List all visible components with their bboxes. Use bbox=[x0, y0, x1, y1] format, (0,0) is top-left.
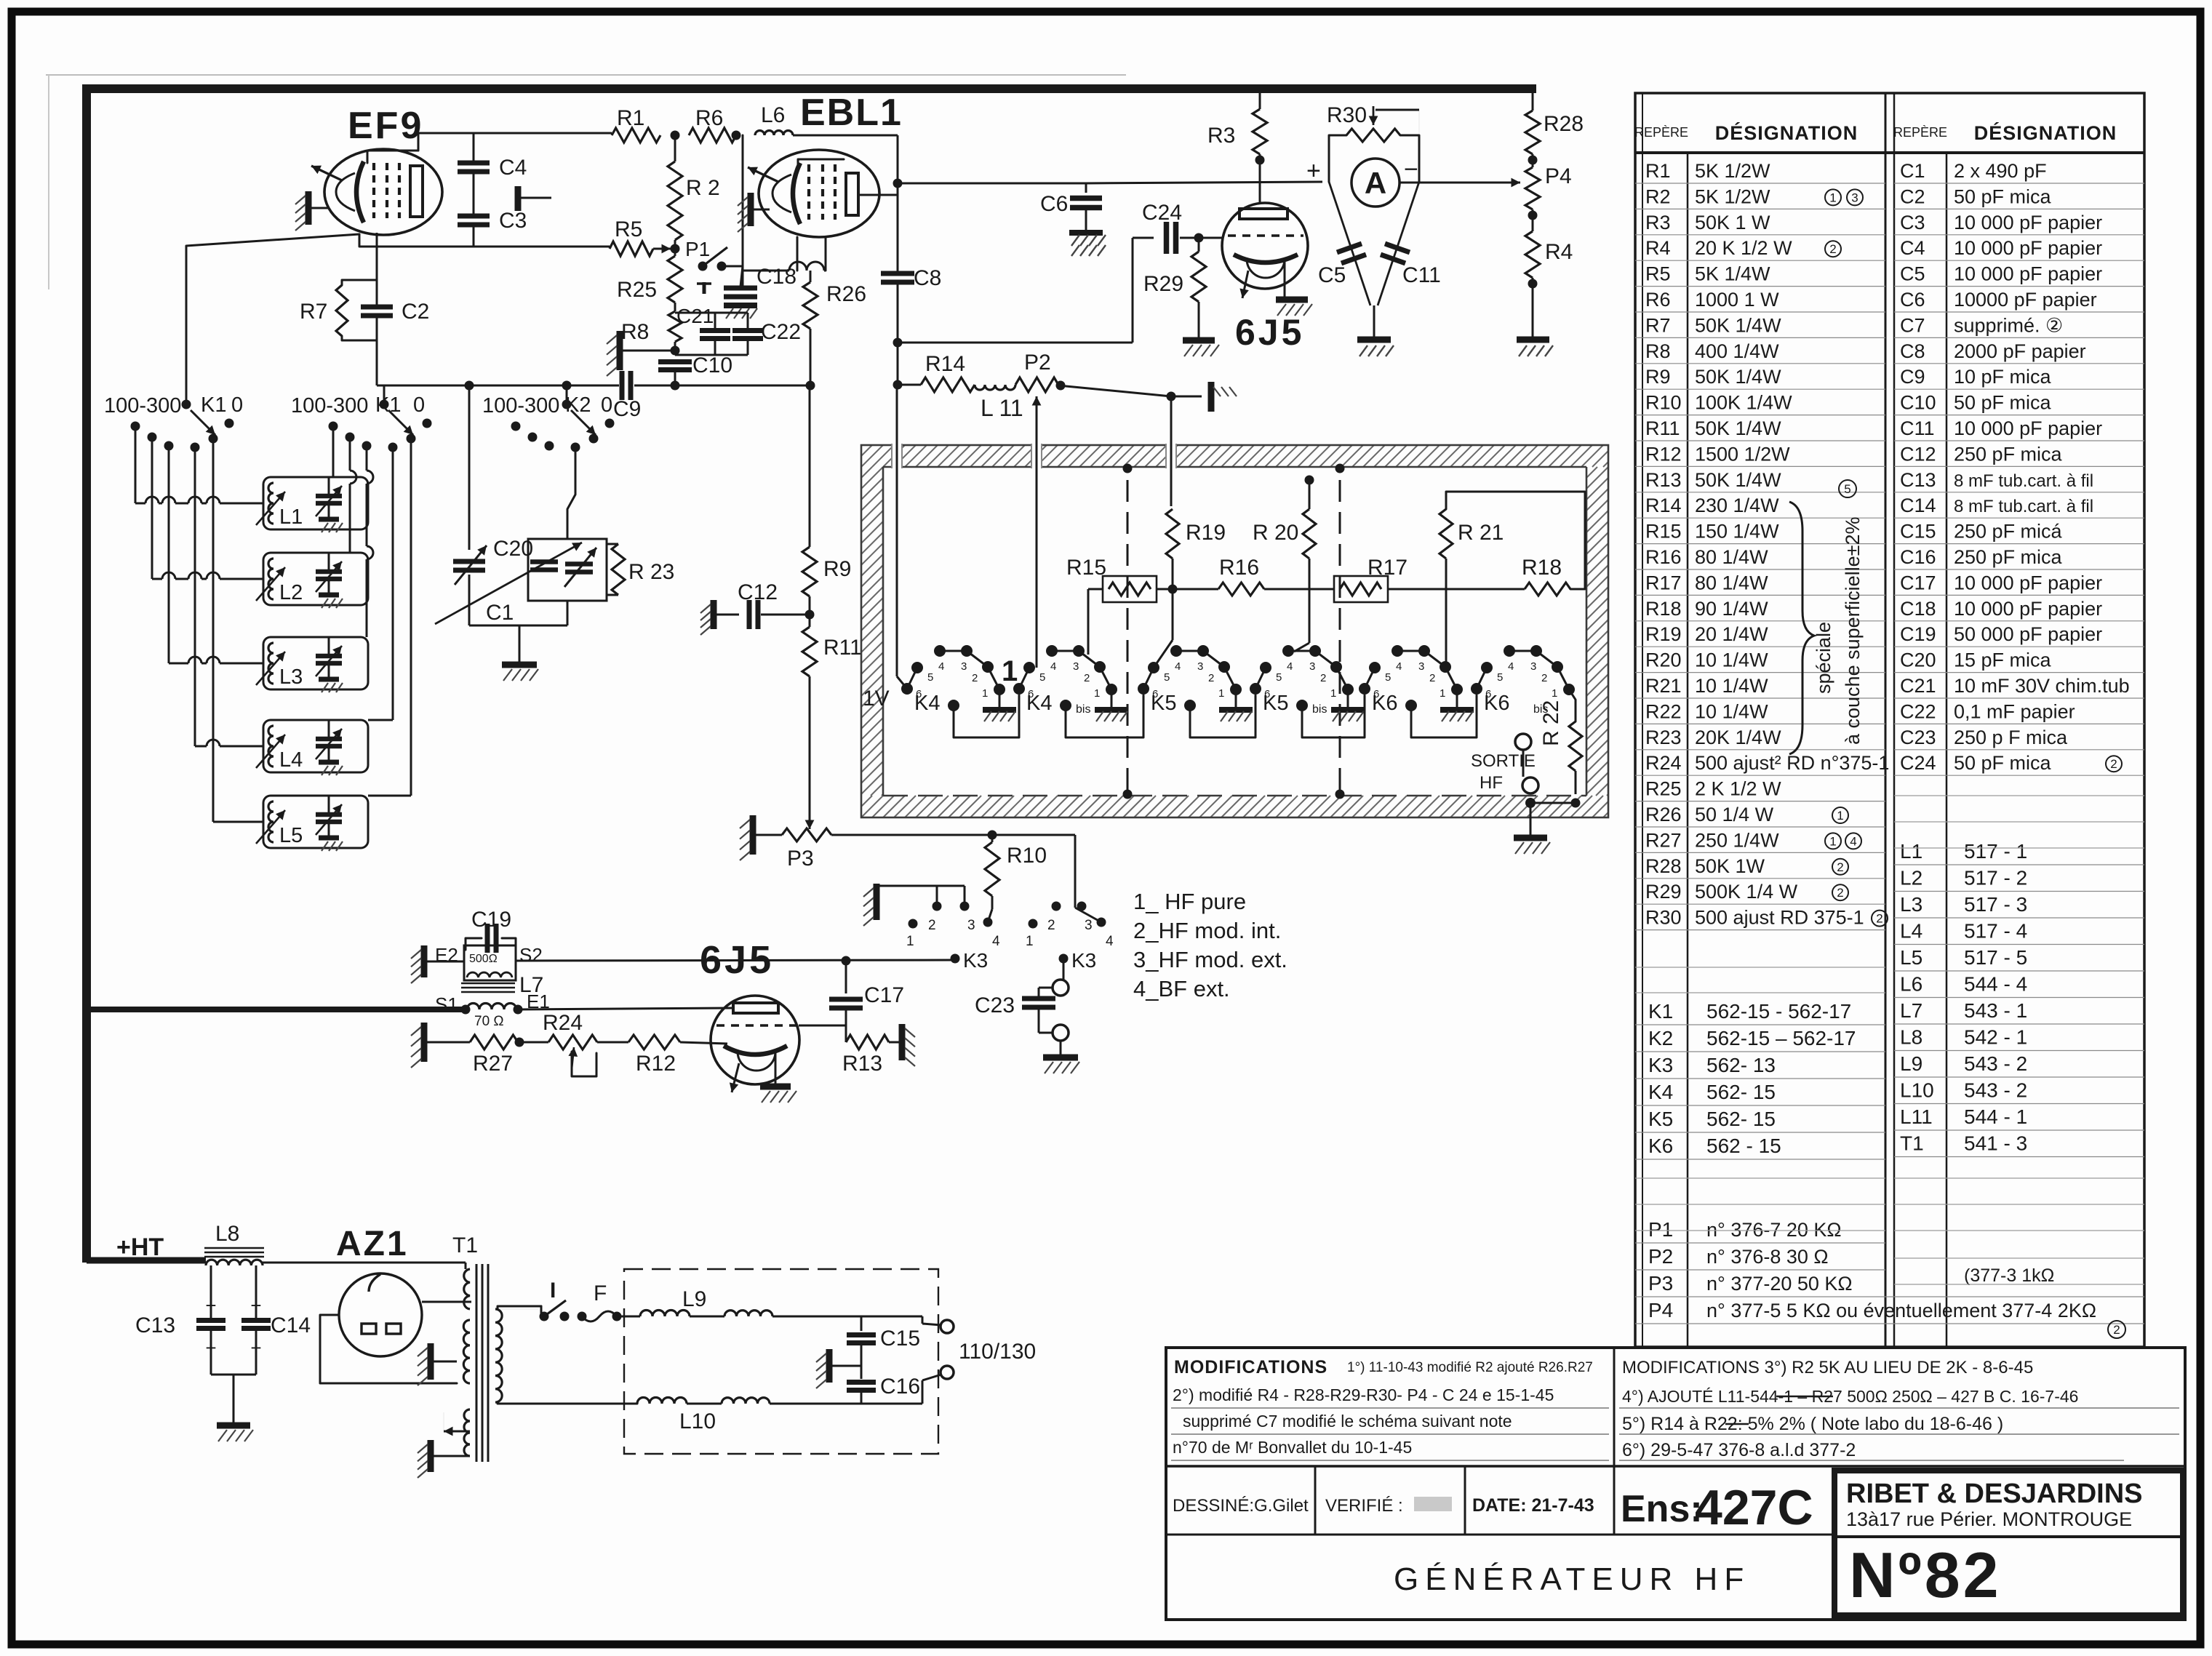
svg-text:C22: C22 bbox=[1900, 700, 1936, 722]
tube 6J5 lower cathode arrow bbox=[732, 1063, 739, 1092]
svg-text:542 - 1: 542 - 1 bbox=[1964, 1026, 2027, 1049]
switch K5 bbox=[1138, 683, 1149, 695]
svg-text:1: 1 bbox=[1552, 687, 1557, 700]
attenuator shield hatch right bbox=[1586, 467, 1597, 478]
wire y471 rail bbox=[898, 342, 1133, 344]
svg-text:50K 1/4W: 50K 1/4W bbox=[1695, 417, 1781, 439]
svg-text:R10: R10 bbox=[1645, 392, 1682, 414]
svg-text:1000 1 W: 1000 1 W bbox=[1695, 289, 1779, 311]
svg-text:R5: R5 bbox=[1645, 263, 1671, 285]
svg-text:R19: R19 bbox=[1645, 623, 1682, 645]
terminal wall T1 bbox=[428, 1343, 434, 1380]
svg-text:500 ajust RD 375-1: 500 ajust RD 375-1 bbox=[1695, 907, 1864, 929]
tube AZ1 anodes bbox=[362, 1324, 376, 1334]
svg-text:R10: R10 bbox=[1007, 844, 1047, 868]
wire R18 right riser bbox=[1528, 492, 1585, 589]
svg-text:2: 2 bbox=[1084, 672, 1090, 684]
svg-text:K6: K6 bbox=[1372, 692, 1397, 715]
svg-text:L8: L8 bbox=[1900, 1026, 1922, 1049]
svg-text:bis: bis bbox=[1312, 703, 1327, 716]
svg-text:R 21: R 21 bbox=[1458, 521, 1504, 545]
tube 6J5 lower plate bbox=[733, 1003, 778, 1013]
svg-text:DÉSIGNATION: DÉSIGNATION bbox=[1715, 121, 1858, 144]
svg-text:R16: R16 bbox=[1645, 546, 1682, 568]
svg-text:DESSINÉ:G.Gilet: DESSINÉ:G.Gilet bbox=[1173, 1496, 1309, 1516]
svg-text:10 1/4W: 10 1/4W bbox=[1695, 700, 1768, 722]
svg-text:90 1/4W: 90 1/4W bbox=[1695, 598, 1768, 620]
svg-text:L9: L9 bbox=[682, 1287, 706, 1311]
svg-text:supprimé. ②: supprimé. ② bbox=[1954, 314, 2063, 336]
inductor L2 tuned circuit bbox=[263, 553, 368, 605]
svg-text:L6: L6 bbox=[761, 103, 785, 127]
wire caps join bbox=[210, 1329, 212, 1375]
svg-text:(377-3 1kΩ: (377-3 1kΩ bbox=[1964, 1265, 2054, 1286]
svg-text:T1: T1 bbox=[452, 1233, 478, 1257]
svg-text:50K 1W: 50K 1W bbox=[1695, 855, 1765, 877]
svg-text:R30: R30 bbox=[1327, 103, 1367, 127]
svg-text:R22: R22 bbox=[1645, 700, 1682, 722]
switch K4 bbox=[901, 683, 913, 695]
svg-text:L3: L3 bbox=[279, 665, 303, 689]
inductor L11 bbox=[975, 385, 1015, 390]
switch I F bbox=[540, 1312, 549, 1321]
svg-text:2: 2 bbox=[1208, 672, 1214, 684]
svg-text:4: 4 bbox=[992, 934, 1000, 949]
svg-text:R12: R12 bbox=[1645, 443, 1682, 465]
wire T1 HV top bbox=[465, 1263, 467, 1269]
wire EBL1 plate out bbox=[858, 194, 898, 196]
svg-text:500K 1/4 W: 500K 1/4 W bbox=[1695, 881, 1798, 903]
svg-text:2: 2 bbox=[1837, 886, 1843, 900]
wire meter to P4 arrow bbox=[1400, 182, 1517, 184]
svg-text:1: 1 bbox=[906, 934, 914, 949]
svg-text:REPÈRE: REPÈRE bbox=[1634, 125, 1688, 140]
svg-text:250 pF mica: 250 pF mica bbox=[1954, 443, 2063, 465]
ribet box bbox=[1834, 1471, 2183, 1615]
wire top rail EF9-R1 bbox=[418, 132, 612, 135]
wire K1b stem bbox=[383, 385, 386, 404]
svg-text:L1: L1 bbox=[279, 505, 303, 529]
resistor R16 bbox=[1218, 583, 1264, 596]
svg-text:4_BF ext.: 4_BF ext. bbox=[1133, 976, 1230, 1001]
svg-text:562 - 15: 562 - 15 bbox=[1706, 1135, 1781, 1157]
resistor R28 bbox=[1532, 89, 1534, 111]
svg-text:50K 1/4W: 50K 1/4W bbox=[1695, 366, 1781, 388]
svg-text:2: 2 bbox=[2113, 1323, 2120, 1337]
wire jack to ground bbox=[1060, 1041, 1062, 1056]
resistor R3 bbox=[1259, 89, 1261, 109]
svg-text:C1: C1 bbox=[1900, 160, 1925, 182]
svg-text:5°) R14 à R22: 5% 2% ( Note l: 5°) R14 à R22: 5% 2% ( Note labo du 18-6… bbox=[1622, 1414, 2003, 1434]
wire P2 wiper drop bbox=[1036, 422, 1038, 668]
wire EF9 anode to top rail bbox=[418, 133, 420, 151]
resistor R9 bbox=[802, 547, 817, 596]
ground wall K3 bbox=[874, 884, 880, 920]
svg-text:R3: R3 bbox=[1645, 212, 1671, 233]
svg-text:P4: P4 bbox=[1648, 1299, 1673, 1321]
svg-text:P2: P2 bbox=[1024, 351, 1051, 375]
wire C10 to lower rail bbox=[674, 370, 676, 385]
svg-text:3: 3 bbox=[1073, 660, 1079, 673]
svg-text:K4: K4 bbox=[1026, 692, 1052, 715]
svg-text:R9: R9 bbox=[1645, 366, 1671, 388]
svg-text:K4: K4 bbox=[914, 692, 940, 715]
svg-text:L4: L4 bbox=[279, 748, 303, 772]
resistor R12 bbox=[628, 1035, 680, 1049]
svg-text:C4: C4 bbox=[1900, 237, 1925, 259]
switch K6 bis bbox=[1471, 683, 1482, 695]
capacitor C12 bbox=[747, 600, 752, 629]
svg-text:F: F bbox=[594, 1281, 607, 1305]
resistor R13 bbox=[846, 1035, 889, 1049]
svg-text:R26: R26 bbox=[826, 282, 866, 306]
svg-text:K5: K5 bbox=[1151, 692, 1176, 715]
svg-text:DATE: 21-7-43: DATE: 21-7-43 bbox=[1472, 1495, 1594, 1516]
tube 6J5 upper cathode arrow bbox=[1242, 271, 1248, 298]
svg-text:1°) 11-10-43 modifié R2 ajou: 1°) 11-10-43 modifié R2 ajouté R26.R27 bbox=[1347, 1360, 1593, 1375]
svg-text:R26: R26 bbox=[1645, 804, 1682, 825]
wire R7/C2 parallel bbox=[342, 280, 377, 285]
svg-text:R3: R3 bbox=[1207, 124, 1235, 148]
svg-text:1_ HF pure: 1_ HF pure bbox=[1133, 889, 1246, 914]
svg-text:R5: R5 bbox=[615, 217, 642, 241]
svg-text:5: 5 bbox=[927, 671, 933, 684]
svg-text:R17: R17 bbox=[1645, 572, 1682, 593]
svg-text:562-15 – 562-17: 562-15 – 562-17 bbox=[1706, 1027, 1856, 1049]
resistor R2 bbox=[668, 161, 682, 240]
wire R2 top bbox=[674, 135, 676, 161]
svg-text:REPÈRE: REPÈRE bbox=[1893, 125, 1947, 140]
resistor R10 bbox=[985, 842, 999, 896]
svg-text:R16: R16 bbox=[1219, 556, 1259, 580]
resistor R7 bbox=[336, 285, 348, 336]
inductor L4 tuned circuit bbox=[263, 720, 368, 772]
svg-text:C13: C13 bbox=[135, 1313, 175, 1337]
svg-text:L9: L9 bbox=[1900, 1052, 1922, 1075]
svg-text:10 000 pF papier: 10 000 pF papier bbox=[1954, 237, 2102, 259]
svg-text:R27: R27 bbox=[1645, 829, 1682, 851]
svg-text:HF: HF bbox=[1480, 773, 1503, 793]
tube 6J5 lower cathode bbox=[724, 1046, 787, 1055]
svg-text:R7: R7 bbox=[300, 300, 327, 324]
svg-text:C10: C10 bbox=[1900, 392, 1936, 414]
svg-text:K3: K3 bbox=[1648, 1054, 1673, 1076]
svg-text:544 - 4: 544 - 4 bbox=[1964, 973, 2027, 996]
terminal wall C15 C16 bbox=[826, 1349, 833, 1383]
svg-text:8 mF tub.cart. à fil: 8 mF tub.cart. à fil bbox=[1954, 471, 2093, 491]
tube EF9 grid terminal bar bbox=[306, 191, 312, 225]
svg-text:4°) AJOUTÉ L11-544-1 – R27 5: 4°) AJOUTÉ L11-544-1 – R27 500Ω 250Ω – 4… bbox=[1622, 1387, 2078, 1406]
capacitor C17 bbox=[845, 961, 847, 993]
svg-text:3: 3 bbox=[967, 918, 975, 933]
svg-text:C6: C6 bbox=[1040, 192, 1068, 216]
svg-text:R11: R11 bbox=[1645, 417, 1680, 439]
tube EF9 cathode bbox=[356, 161, 364, 223]
tube EBL1 plate bbox=[846, 173, 858, 215]
svg-text:100K 1/4W: 100K 1/4W bbox=[1695, 392, 1792, 414]
resistor R21 bbox=[1440, 509, 1453, 559]
svg-text:+HT: +HT bbox=[116, 1233, 164, 1261]
wire 6J5 cathode ground bbox=[1284, 259, 1286, 298]
capacitor C10 bbox=[658, 359, 692, 364]
wire R19 to bus bbox=[1172, 559, 1174, 589]
resistor R23 bbox=[612, 544, 625, 595]
svg-text:2: 2 bbox=[972, 672, 978, 684]
svg-text:C2: C2 bbox=[402, 300, 429, 324]
tube EF9 cathode arrow bbox=[311, 166, 342, 180]
svg-text:L7: L7 bbox=[1900, 999, 1922, 1022]
svg-text:Ens:: Ens: bbox=[1621, 1488, 1703, 1530]
switch K1b contacts bbox=[380, 400, 389, 409]
resistor R25 bbox=[668, 256, 682, 303]
svg-text:K3: K3 bbox=[1071, 949, 1096, 972]
svg-text:C21: C21 bbox=[1900, 675, 1936, 697]
titleblock outer bbox=[1166, 1348, 2185, 1620]
svg-text:DÉSIGNATION: DÉSIGNATION bbox=[1974, 121, 2117, 144]
svg-text:5: 5 bbox=[1385, 671, 1391, 684]
tube EF9 envelope bbox=[324, 149, 442, 235]
potentiometer R24 bbox=[548, 1035, 597, 1049]
terminal wall P3 bbox=[750, 815, 756, 855]
wire T1 primary bottom bbox=[498, 1402, 637, 1404]
capacitor C14 bbox=[241, 1318, 271, 1323]
svg-text:2: 2 bbox=[928, 918, 936, 933]
ground R29 bbox=[1183, 337, 1215, 344]
svg-text:3_HF mod. ext.: 3_HF mod. ext. bbox=[1133, 947, 1287, 972]
svg-text:L1: L1 bbox=[1900, 840, 1922, 863]
resistor R20 bbox=[1303, 509, 1316, 559]
terminal bar near C4 bbox=[515, 186, 522, 211]
svg-text:517 - 2: 517 - 2 bbox=[1964, 867, 2027, 889]
wire cathode to ground bbox=[775, 1052, 777, 1085]
svg-text:C14: C14 bbox=[271, 1313, 311, 1337]
svg-text:K4: K4 bbox=[1648, 1081, 1673, 1103]
capacitor C4 bbox=[458, 161, 490, 166]
svg-text:20 K 1/2 W: 20 K 1/2 W bbox=[1695, 237, 1792, 259]
capacitor C13 bbox=[196, 1318, 225, 1323]
svg-text:0: 0 bbox=[601, 393, 612, 417]
svg-text:P3: P3 bbox=[787, 847, 814, 871]
svg-text:C9: C9 bbox=[1900, 366, 1925, 388]
svg-text:K2: K2 bbox=[1648, 1027, 1673, 1049]
svg-text:L5: L5 bbox=[279, 824, 303, 847]
svg-text:C20: C20 bbox=[1900, 649, 1936, 671]
capacitor C22 bbox=[732, 328, 763, 333]
shield feed-through bbox=[1031, 442, 1042, 470]
svg-text:50 000 pF papier: 50 000 pF papier bbox=[1954, 623, 2102, 645]
svg-text:1500 1/2W: 1500 1/2W bbox=[1695, 443, 1790, 465]
svg-text:I: I bbox=[550, 1279, 556, 1303]
svg-text:GÉNÉRATEUR HF: GÉNÉRATEUR HF bbox=[1394, 1561, 1750, 1597]
ground sortie bbox=[1514, 835, 1547, 841]
wire C2 to main lower rail bbox=[376, 340, 378, 385]
svg-text:517 - 1: 517 - 1 bbox=[1964, 840, 2027, 863]
svg-text:50 pF mica: 50 pF mica bbox=[1954, 752, 2052, 774]
svg-text:10 000 pF papier: 10 000 pF papier bbox=[1954, 417, 2102, 439]
tube 6J5 upper grid bbox=[1228, 234, 1303, 237]
svg-text:C24: C24 bbox=[1900, 752, 1936, 774]
tube EBL1 envelope bbox=[759, 150, 879, 237]
svg-text:400 1/4W: 400 1/4W bbox=[1695, 340, 1779, 362]
svg-text:2: 2 bbox=[1829, 242, 1836, 256]
switch K1 contacts bbox=[182, 400, 191, 409]
svg-text:C17: C17 bbox=[864, 983, 904, 1007]
svg-text:5: 5 bbox=[1039, 671, 1045, 684]
svg-text:1: 1 bbox=[1094, 687, 1100, 700]
capacitor C21 bbox=[700, 328, 730, 333]
svg-text:R 2: R 2 bbox=[686, 176, 720, 200]
svg-text:50K 1 W: 50K 1 W bbox=[1695, 212, 1770, 233]
wire 1V input drop bbox=[896, 385, 898, 676]
svg-text:R4: R4 bbox=[1545, 240, 1573, 264]
svg-text:R17: R17 bbox=[1367, 556, 1408, 580]
wire L9 to C15 bbox=[772, 1316, 861, 1318]
svg-text:250 1/4W: 250 1/4W bbox=[1695, 829, 1779, 851]
svg-text:C10: C10 bbox=[692, 353, 732, 377]
svg-text:50K 1/4W: 50K 1/4W bbox=[1695, 469, 1781, 491]
svg-text:4: 4 bbox=[1508, 660, 1514, 673]
svg-text:MODIFICATIONS 3°) R2 5K AU L: MODIFICATIONS 3°) R2 5K AU LIEU DE 2K - … bbox=[1622, 1358, 2033, 1377]
svg-text:C23: C23 bbox=[975, 993, 1015, 1017]
terminal wall T1 filament bbox=[428, 1440, 434, 1472]
svg-text:3: 3 bbox=[1085, 918, 1093, 933]
wire EBL1 heater bbox=[796, 237, 799, 271]
svg-text:R13: R13 bbox=[1645, 469, 1682, 491]
switch K2 contacts bbox=[562, 400, 572, 409]
resistor R26 bbox=[803, 282, 818, 329]
svg-text:150 1/4W: 150 1/4W bbox=[1695, 521, 1779, 543]
svg-text:C1: C1 bbox=[486, 601, 514, 625]
svg-text:5: 5 bbox=[1276, 671, 1282, 684]
tube 6J5 upper cathode bbox=[1234, 255, 1298, 263]
wire C21/C22 harness bbox=[714, 313, 716, 330]
capacitor C1 tank box bbox=[528, 539, 607, 601]
capacitor C11 cone bbox=[1378, 182, 1419, 305]
ground 6J5 lower bbox=[760, 1084, 791, 1090]
svg-text:250 pF mica: 250 pF mica bbox=[1954, 546, 2063, 568]
transformer T1 left windings bbox=[464, 1269, 470, 1309]
wire sortie ground bbox=[1530, 803, 1532, 836]
table rows R1-R30 bbox=[1635, 183, 1885, 184]
attenuator dividers bbox=[1127, 480, 1129, 794]
ground below C18 bbox=[724, 303, 757, 308]
svg-text:K6: K6 bbox=[1484, 692, 1509, 715]
wire S2 to K3 bbox=[516, 960, 955, 961]
svg-text:L5: L5 bbox=[1900, 946, 1922, 969]
svg-text:0: 0 bbox=[231, 393, 243, 417]
svg-text:R9: R9 bbox=[823, 557, 851, 581]
svg-text:L2: L2 bbox=[1900, 867, 1922, 889]
wire P2 out drop bbox=[1170, 396, 1173, 506]
svg-text:R1: R1 bbox=[1645, 160, 1671, 182]
svg-text:L4: L4 bbox=[1900, 920, 1922, 943]
svg-text:5K 1/2W: 5K 1/2W bbox=[1695, 185, 1770, 207]
svg-text:K3: K3 bbox=[963, 949, 988, 972]
table P4 mark bbox=[2108, 1321, 2125, 1338]
svg-text:R25: R25 bbox=[1645, 778, 1682, 800]
svg-text:R1: R1 bbox=[617, 106, 644, 130]
jack circle lower bbox=[1053, 1025, 1069, 1041]
svg-text:P1: P1 bbox=[685, 238, 710, 260]
ground C13 C14 bbox=[217, 1423, 250, 1429]
wire +HT thick bbox=[87, 1257, 206, 1264]
svg-text:80 1/4W: 80 1/4W bbox=[1695, 572, 1768, 593]
tube EF9 grids bbox=[372, 163, 375, 218]
svg-text:C5: C5 bbox=[1318, 263, 1346, 287]
svg-text:10 1/4W: 10 1/4W bbox=[1695, 675, 1768, 697]
wire K2 stem bbox=[566, 385, 568, 404]
svg-text:R 22: R 22 bbox=[1539, 700, 1563, 746]
jack SORTIE bbox=[1522, 751, 1525, 777]
svg-text:100-300: 100-300 bbox=[104, 394, 181, 417]
svg-text:C19: C19 bbox=[471, 908, 511, 932]
svg-text:C14: C14 bbox=[1900, 495, 1936, 516]
svg-text:100-300: 100-300 bbox=[291, 394, 368, 417]
inductor L3 tuned circuit bbox=[263, 637, 368, 689]
svg-text:13à17 rue Périer. MONTROUGE: 13à17 rue Périer. MONTROUGE bbox=[1846, 1508, 2132, 1530]
svg-text:3: 3 bbox=[1197, 660, 1203, 673]
svg-text:−: − bbox=[1404, 156, 1418, 183]
svg-text:1: 1 bbox=[1002, 655, 1018, 687]
ground cone bbox=[1357, 337, 1391, 343]
wire P1 box to EBL1 bbox=[742, 135, 744, 266]
svg-text:2: 2 bbox=[1320, 672, 1326, 684]
table C24 mark bbox=[2106, 756, 2122, 772]
capacitor C6 bbox=[1085, 183, 1087, 193]
svg-text:10 000 pF papier: 10 000 pF papier bbox=[1954, 263, 2102, 285]
svg-text:C22: C22 bbox=[761, 320, 801, 344]
svg-text:R2: R2 bbox=[1645, 185, 1671, 207]
svg-text:5: 5 bbox=[1844, 482, 1850, 496]
svg-text:543 - 1: 543 - 1 bbox=[1964, 999, 2027, 1022]
svg-text:SORTIE: SORTIE bbox=[1471, 751, 1536, 771]
schematic frame left edge bbox=[82, 84, 91, 1263]
terminal wall C12 bbox=[711, 600, 717, 629]
svg-text:C2: C2 bbox=[1900, 185, 1925, 207]
svg-text:n° 376-8 30 Ω: n° 376-8 30 Ω bbox=[1706, 1246, 1829, 1268]
resistor R22 bbox=[1569, 721, 1582, 771]
inductor L1 tuned circuit bbox=[263, 477, 368, 529]
svg-text:R13: R13 bbox=[842, 1052, 882, 1076]
node R1-R2 junction bbox=[671, 131, 680, 140]
svg-text:10 000 pF papier: 10 000 pF papier bbox=[1954, 572, 2102, 593]
svg-text:n° 376-7 20 KΩ: n° 376-7 20 KΩ bbox=[1706, 1219, 1842, 1241]
svg-text:R29: R29 bbox=[1645, 881, 1682, 903]
capacitor C23 bbox=[1038, 988, 1040, 998]
wire C24 riser bbox=[1132, 238, 1134, 343]
svg-text:R12: R12 bbox=[636, 1052, 676, 1076]
svg-text:R8: R8 bbox=[621, 320, 649, 344]
ground jack bbox=[1043, 1055, 1078, 1061]
svg-text:+: + bbox=[1306, 157, 1321, 185]
wire EF9 anode column to C2 bbox=[376, 233, 378, 280]
inductor L9 bbox=[640, 1311, 690, 1317]
svg-text:T1: T1 bbox=[1900, 1132, 1924, 1155]
node R2 tap bbox=[671, 244, 680, 254]
meter A bbox=[1351, 159, 1400, 207]
svg-text:Nº82: Nº82 bbox=[1849, 1539, 2002, 1611]
svg-text:C8: C8 bbox=[1900, 340, 1925, 362]
svg-text:8 mF tub.cart. à fil: 8 mF tub.cart. à fil bbox=[1954, 497, 2093, 516]
svg-text:562-15 - 562-17: 562-15 - 562-17 bbox=[1706, 1000, 1851, 1023]
inductor L5 tuned circuit bbox=[263, 796, 368, 848]
svg-text:C8: C8 bbox=[914, 266, 941, 290]
attenuator shield hatch top bbox=[861, 445, 872, 456]
svg-text:P3: P3 bbox=[1648, 1272, 1673, 1295]
wire C12 to column bbox=[761, 614, 810, 616]
svg-text:R28: R28 bbox=[1645, 855, 1682, 877]
svg-text:L 11: L 11 bbox=[981, 395, 1023, 421]
